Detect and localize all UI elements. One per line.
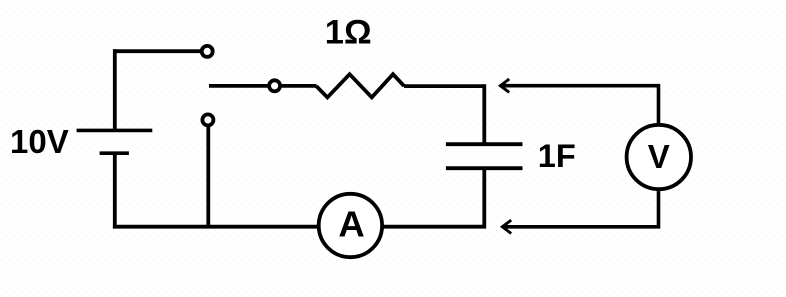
arrowhead: bottom probe pointing at capacitor bottom node [502, 220, 511, 233]
wire: switch bottom terminal down to bottom rail [206, 125, 210, 229]
capacitor C 1F top plate [446, 142, 523, 146]
voltmeter V circle [627, 125, 691, 189]
svg-text:V: V [648, 138, 670, 175]
wire: capacitor branch upper vertical [482, 84, 486, 144]
switch top terminal circle [202, 46, 213, 57]
svg-text:1Ω: 1Ω [325, 14, 372, 52]
wire: bottom rail right segment (ammeter to capacitor corner) [382, 225, 486, 229]
switch bottom terminal circle [202, 114, 213, 125]
voltmeter top probe wire with corner [500, 86, 658, 124]
svg-text:10V: 10V [10, 123, 69, 160]
wire: left vertical upper (to battery positive plate) [113, 49, 117, 130]
resistor R 1-ohm zigzag [316, 74, 404, 97]
arrowhead: top probe pointing at capacitor top node [500, 79, 509, 92]
switch pivot terminal circle [269, 80, 280, 91]
wire: switch lever left segment (open pole) [209, 84, 268, 88]
battery 10V negative plate (short) [100, 151, 129, 155]
wire: capacitor branch lower vertical [482, 168, 486, 228]
svg-text:1F: 1F [538, 138, 576, 174]
wire: resistor to top-right corner [404, 84, 484, 88]
capacitor C 1F bottom plate [446, 166, 523, 170]
svg-text:A: A [338, 204, 364, 245]
wire: switch pivot to resistor [282, 84, 317, 88]
wire: bottom rail left segment (to ammeter) [113, 225, 319, 229]
voltmeter bottom probe wire with corner [502, 190, 658, 226]
battery 10V positive plate (long) [77, 129, 153, 133]
ammeter A circle [319, 194, 382, 257]
wire: top-left horizontal (battery + to switch top terminal) [113, 49, 200, 53]
wire: left vertical lower (battery - to bottom rail) [113, 153, 117, 228]
